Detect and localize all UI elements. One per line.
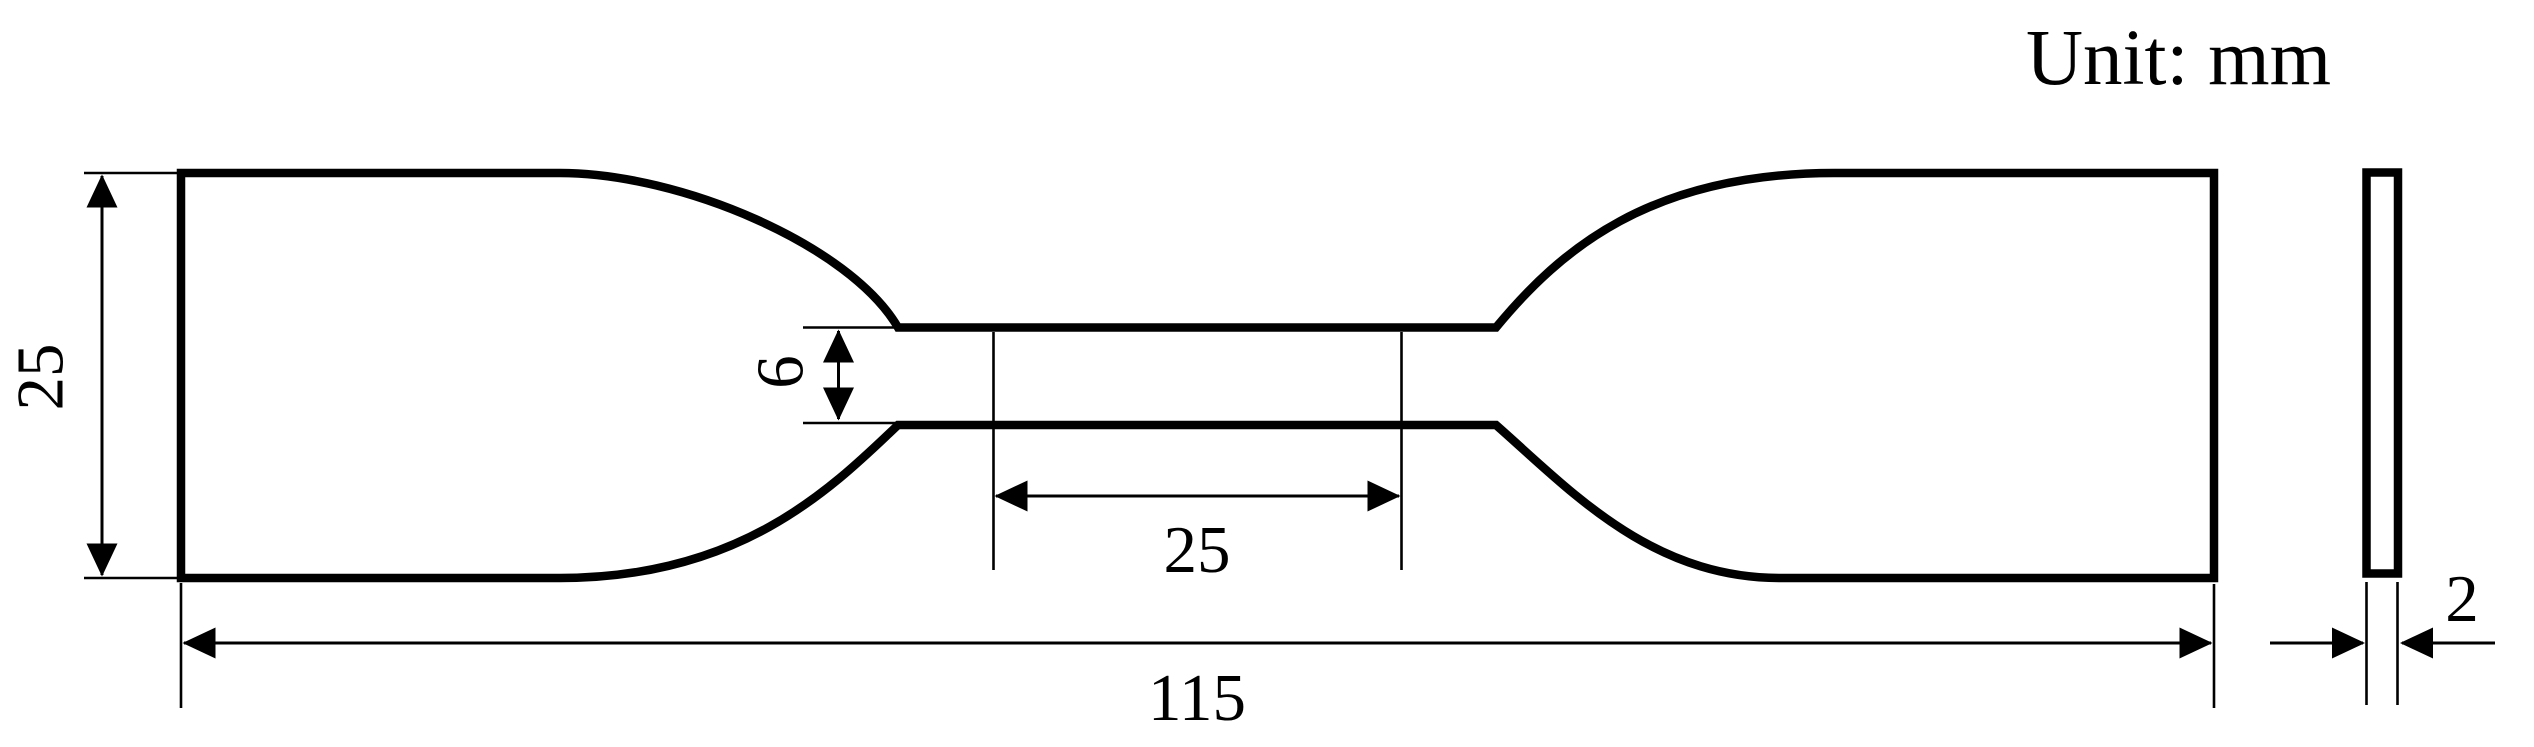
6 dim: extension lines	[803, 326, 900, 329]
side view rectangle	[2367, 173, 2399, 574]
left 25 dim: extension lines	[84, 172, 178, 175]
specimen outline (front view of dog-bone tensile specimen)	[181, 173, 2214, 578]
svg-text:25: 25	[1164, 513, 1231, 587]
svg-text:6: 6	[743, 355, 817, 389]
2 dim: arrows	[2270, 642, 2363, 645]
middle 25 dim: dimension line	[996, 495, 1399, 498]
115 dim: dimension line	[184, 642, 2211, 645]
2 dim: extension lines	[2365, 582, 2368, 705]
6 dim: dimension line	[837, 331, 840, 419]
middle 25 dim: extension lines	[992, 332, 995, 570]
svg-text:25: 25	[3, 344, 77, 411]
svg-text:Unit: mm: Unit: mm	[2026, 15, 2331, 102]
svg-text:115: 115	[1148, 661, 1246, 735]
115 dim: extension lines	[180, 583, 183, 708]
left 25 dim: dimension line	[101, 176, 104, 575]
svg-text:2: 2	[2445, 562, 2479, 636]
